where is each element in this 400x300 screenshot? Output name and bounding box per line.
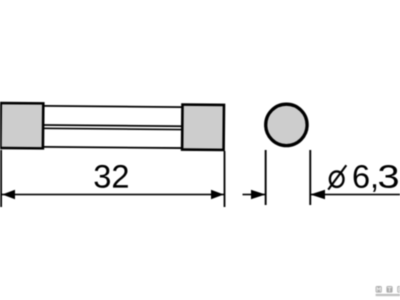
dimension text 32 digit 2 <box>113 165 128 188</box>
left extension line of 32 dimension <box>0 150 2 207</box>
glass tube bottom line <box>43 146 182 149</box>
left arrowhead of diameter dimension pointing right <box>251 190 266 199</box>
right arrowhead of 32 dimension <box>211 190 224 200</box>
left extension line of diameter dimension <box>265 150 267 205</box>
right extension line of 32 dimension <box>224 151 226 207</box>
left leader line of diameter dimension <box>243 194 266 196</box>
watermark MTB logo bottom right <box>376 286 400 296</box>
glass tube top line <box>43 105 182 108</box>
fuse element upper line <box>43 124 182 127</box>
left end cap <box>0 103 43 148</box>
32 dimension line <box>2 194 225 196</box>
right extension line of diameter dimension <box>309 150 311 205</box>
right arrowhead of diameter dimension pointing left <box>310 190 325 199</box>
fuse element lower line <box>43 127 182 130</box>
diameter symbol slash <box>328 165 346 189</box>
fuse body group (slightly tilted) <box>0 103 224 150</box>
dimension text 32 digit 3 <box>95 165 110 188</box>
right end cap <box>182 105 224 150</box>
diameter symbol circle <box>330 171 344 187</box>
right leader line of diameter dimension <box>310 194 400 196</box>
left arrowhead of 32 dimension <box>2 190 15 200</box>
dimension text digit 6 <box>354 165 369 188</box>
dimension text comma <box>373 184 376 192</box>
dimension text digit 3 <box>379 165 398 188</box>
end view circle <box>266 104 307 145</box>
